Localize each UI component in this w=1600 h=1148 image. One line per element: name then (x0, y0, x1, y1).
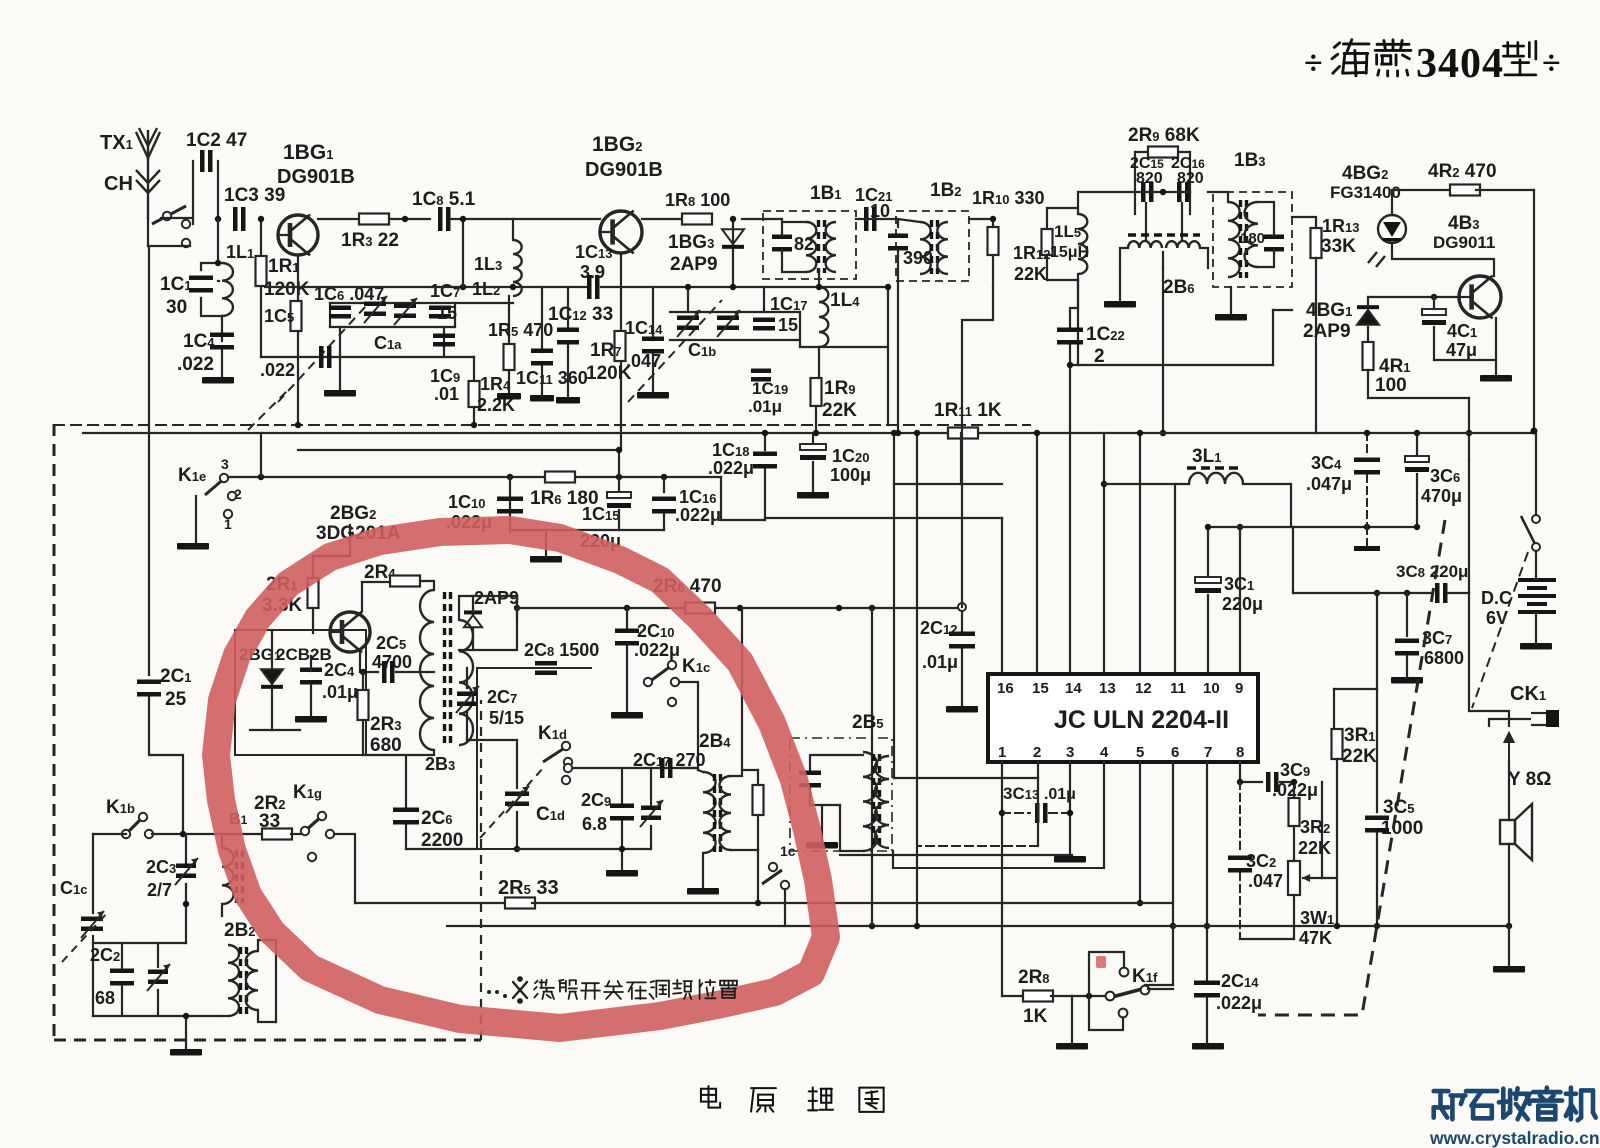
svg-text:2C1: 2C1 (160, 666, 192, 687)
box around C1d (477, 668, 592, 849)
wire (1535, 434, 1537, 515)
wire right rail (1533, 190, 1535, 431)
wire (1448, 592, 1469, 594)
svg-text:220μ: 220μ (1222, 594, 1263, 614)
wire to pin 16 (1001, 518, 1003, 674)
wire (1145, 984, 1173, 986)
capacitor 3C13 .01u (1035, 803, 1048, 823)
svg-text:1C8 5.1: 1C8 5.1 (412, 189, 476, 210)
wire (1292, 217, 1316, 228)
wire (221, 904, 223, 916)
capacitor 1C13 3.9 (587, 275, 600, 299)
wire 1BG2 emitter down (620, 253, 622, 450)
transformer core (715, 774, 721, 852)
resistor 1R4 2.2K (469, 381, 480, 407)
wire (810, 755, 863, 770)
inductor 2B2 secondary (246, 951, 258, 1010)
wire (960, 433, 962, 484)
wire (1336, 759, 1338, 926)
svg-text:K1g: K1g (293, 782, 322, 803)
oscillator box outline (235, 630, 366, 755)
wire (1240, 781, 1262, 783)
wire 3C13 (1002, 812, 1030, 814)
wire 2C6 branch (405, 755, 407, 807)
svg-text:6.8: 6.8 (582, 814, 607, 834)
IC U1 JC ULN 2204-II (988, 674, 1258, 762)
variable capacitor 2C3 2/7 (175, 858, 198, 885)
svg-text:3.9: 3.9 (580, 262, 605, 282)
svg-text:C1d: C1d (536, 804, 565, 825)
wire 2AP9 loop (459, 596, 517, 650)
wire (757, 770, 759, 785)
wire (339, 327, 341, 390)
inductor 1L5 box (1040, 208, 1095, 280)
wire (221, 316, 223, 341)
ground (530, 556, 562, 563)
wire (1333, 689, 1335, 729)
wire (1392, 189, 1454, 191)
wire (1272, 310, 1274, 365)
wire long vertical (871, 608, 873, 926)
svg-text:1C12 33: 1C12 33 (548, 304, 613, 325)
wire (1376, 593, 1378, 689)
wire (1046, 208, 1048, 229)
svg-text:FG31400: FG31400 (1330, 183, 1401, 202)
svg-text:÷: ÷ (1542, 45, 1561, 82)
resistor resistor right of 2B4 (753, 785, 764, 815)
svg-text:.022μ: .022μ (634, 640, 680, 660)
wire (893, 867, 1104, 869)
capacitor 1C20 100u (electrolytic) (800, 444, 826, 460)
svg-text:2200: 2200 (421, 830, 463, 851)
note 波段开关在调频位置 (534, 980, 554, 999)
capacitor 2C1 25 (137, 680, 161, 697)
wire 3C4 branch (1366, 433, 1368, 455)
junction (1466, 430, 1472, 436)
junction (1531, 428, 1538, 435)
svg-text:3R1: 3R1 (1344, 725, 1376, 746)
capacitor 3C4 .047u (1354, 458, 1380, 475)
wire (148, 245, 190, 247)
wire (1293, 895, 1295, 939)
wire (742, 769, 758, 771)
wire (815, 406, 817, 433)
wire (1508, 762, 1510, 808)
svg-text:5: 5 (1136, 744, 1144, 761)
svg-text:6800: 6800 (1424, 648, 1464, 668)
svg-text:4BG1: 4BG1 (1306, 300, 1352, 321)
capacitor 1C4 .022 (210, 333, 234, 350)
wire (1508, 844, 1510, 926)
wire (1077, 192, 1079, 208)
transistor 4BG3 (1459, 276, 1501, 319)
contact (145, 830, 153, 838)
capacitor 1C3 39 (233, 207, 246, 231)
capacitor 1C15 220u (electrolytic) (607, 492, 631, 508)
wire (800, 346, 888, 348)
svg-text:22K: 22K (1298, 838, 1331, 858)
junction (616, 447, 622, 453)
wire (961, 607, 963, 631)
junction (1431, 294, 1437, 300)
inductor 1L4 (819, 287, 828, 347)
svg-text:K1d: K1d (538, 723, 567, 744)
ground under K1f (1056, 1043, 1088, 1050)
caption 电 (701, 1086, 720, 1108)
switch K1a (antenna) (152, 206, 190, 247)
svg-text:7: 7 (1204, 744, 1212, 761)
wire emitter (359, 652, 361, 672)
wire (1243, 483, 1291, 485)
svg-text:1R8 100: 1R8 100 (665, 190, 730, 210)
svg-text:11: 11 (1170, 680, 1186, 697)
svg-text:5/15: 5/15 (489, 708, 524, 728)
svg-text:10: 10 (1203, 680, 1220, 697)
svg-text:1R11 1K: 1R11 1K (934, 400, 1002, 421)
wire wiper to 3R1 column (1322, 877, 1337, 879)
wire (454, 303, 456, 327)
arrow up to jack (1505, 733, 1514, 762)
junction (1034, 430, 1040, 436)
svg-text:4700: 4700 (372, 652, 412, 672)
wire (757, 815, 759, 850)
junction (1414, 524, 1420, 530)
svg-text:1: 1 (998, 744, 1006, 761)
wire (1280, 782, 1294, 796)
wire 1B2 secondary down (897, 281, 899, 433)
wire (161, 217, 193, 219)
inductor 1B2 primary (920, 222, 931, 274)
wire (702, 853, 704, 888)
wire to 1BG2 (513, 218, 600, 220)
wire (893, 433, 895, 778)
wire (217, 219, 219, 263)
junction (460, 284, 466, 290)
wire (856, 218, 896, 220)
wire (363, 750, 434, 755)
svg-text:K1e: K1e (178, 465, 206, 486)
capacitor 1C17 15 (753, 318, 775, 331)
transformer 1B3 (dashed box) (1213, 192, 1292, 287)
transformer core (241, 947, 247, 1015)
wire 1BG2 collector right (642, 218, 685, 220)
wire (687, 287, 689, 312)
svg-text:9: 9 (1235, 680, 1243, 697)
junction (619, 846, 625, 852)
svg-text:DG901B: DG901B (585, 159, 663, 181)
wire (799, 312, 801, 347)
logo 矿石收音机 (1434, 1091, 1466, 1119)
wire bottom rail right (1175, 925, 1509, 927)
wire 1BG1 collector to 1R3 (318, 218, 362, 220)
junction (1067, 810, 1073, 816)
junction (1237, 779, 1243, 785)
wire (362, 720, 364, 755)
svg-text:÷: ÷ (1304, 45, 1323, 82)
transistor 2BG2 oscillator (330, 612, 370, 653)
wire (1047, 274, 1078, 280)
wire (389, 218, 430, 220)
wire 2R5 rail (355, 902, 508, 904)
wire (1077, 280, 1079, 365)
wire (545, 530, 547, 556)
wire (185, 1016, 187, 1040)
wire (1207, 595, 1209, 674)
variable capacitor 2C7 5/15 (456, 686, 479, 713)
svg-text:470μ: 470μ (1421, 486, 1462, 506)
caption 原 (751, 1088, 776, 1111)
wire (840, 854, 1072, 856)
wire (271, 630, 273, 668)
wire 1R1 branch (260, 219, 262, 357)
junction (180, 831, 186, 837)
capacitor 1C10 .022u (497, 497, 523, 514)
capacitor 2C12 .01u (949, 632, 975, 649)
resistor 2R8 1K (1023, 991, 1053, 1002)
wire pin2 down (1037, 762, 1039, 846)
wire (148, 433, 150, 675)
wire (201, 298, 222, 316)
wire rail to 1BG1 base (218, 280, 219, 282)
svg-text:1R1: 1R1 (268, 256, 300, 277)
junction (360, 669, 366, 675)
junction (471, 422, 477, 428)
inductor 2B2 primary (228, 945, 239, 1016)
wire (512, 219, 514, 240)
wire (764, 469, 766, 520)
diode 2AP9 varicap (464, 610, 482, 627)
resistor 2R4 (390, 576, 420, 587)
wire (222, 1015, 228, 1017)
svg-text:2B4: 2B4 (699, 731, 731, 752)
wire (1120, 248, 1128, 268)
variable capacitor C1d (505, 786, 529, 813)
wire (1162, 268, 1164, 433)
svg-text:2R3: 2R3 (370, 714, 402, 735)
wire (121, 986, 123, 1016)
wire C1b tank bottom (670, 339, 800, 341)
wire down to CK1 (1468, 398, 1470, 460)
wire (1495, 360, 1497, 375)
wire to pin 14 (1069, 365, 1071, 674)
junction (1364, 430, 1370, 436)
ground under 1C12 (556, 397, 580, 404)
junction (885, 284, 891, 290)
svg-text:Y 8Ω: Y 8Ω (1508, 769, 1551, 790)
wire (1069, 345, 1071, 365)
resistor 2R2 33 (262, 829, 292, 840)
resistor 1R1 120K (256, 256, 267, 286)
svg-text:6: 6 (1171, 744, 1179, 761)
variable capacitor C1c (81, 911, 104, 938)
LED 4BG2 (1368, 215, 1406, 267)
junction (1334, 923, 1340, 929)
junction (1086, 993, 1092, 999)
junction (1170, 923, 1176, 929)
svg-text:2R9 68K: 2R9 68K (1128, 125, 1200, 146)
wire (782, 250, 806, 272)
junction (258, 216, 264, 222)
ground under 1B3 (1215, 314, 1247, 321)
wire (1078, 191, 1135, 193)
wire main rail 1R11 (83, 432, 1534, 434)
wire (812, 433, 814, 444)
junction (1237, 524, 1243, 530)
contact (326, 830, 334, 838)
ground under 2C9 (606, 870, 638, 877)
svg-text:13: 13 (1099, 680, 1116, 697)
wire (1258, 250, 1274, 267)
wire (310, 685, 312, 716)
junction (730, 284, 736, 290)
wire (1376, 689, 1378, 812)
wire (451, 218, 513, 220)
capacitor 2C15 820 (1141, 182, 1154, 202)
junction (685, 284, 691, 290)
wire (571, 767, 696, 769)
capacitor 2C16 820 (1177, 182, 1190, 202)
switch K1c' (762, 863, 789, 889)
wire (466, 668, 468, 688)
wire (185, 1040, 187, 1049)
capacitor 3C7 6800 (1395, 639, 1419, 656)
svg-text:2B6: 2B6 (1163, 277, 1195, 298)
junction (661, 474, 667, 480)
contact (564, 764, 572, 772)
variable capacitor C1a' (394, 298, 417, 325)
junction (999, 810, 1005, 816)
wire (1189, 152, 1191, 192)
wire (917, 845, 1038, 847)
resistor 1R5 470 (504, 344, 515, 370)
transformer core (819, 220, 825, 273)
capacitor 1C8 5.1 (438, 207, 451, 231)
svg-text:2AP9: 2AP9 (474, 588, 519, 608)
svg-text:1C11 360: 1C11 360 (516, 368, 588, 388)
wire (679, 682, 698, 770)
transistor 1BG1 DG901B (278, 215, 318, 256)
wire (1070, 364, 1273, 366)
junction (1404, 590, 1410, 596)
inductor 1B1 primary (806, 222, 816, 272)
svg-text:1R5 470: 1R5 470 (488, 320, 553, 340)
wire (1468, 460, 1470, 593)
red speck (1096, 956, 1106, 968)
svg-text:www.crystalradio.cn: www.crystalradio.cn (1429, 1128, 1600, 1148)
wire (258, 940, 276, 951)
wire to pin 10 (1207, 527, 1209, 575)
capacitor 1C7 15 (429, 306, 451, 319)
transformer 1B2 (dashed box) (896, 211, 969, 281)
wire (201, 263, 222, 270)
wire (1162, 252, 1164, 268)
resistor 2R6 470 (685, 603, 715, 614)
wire (1535, 551, 1537, 578)
svg-text:2: 2 (1033, 744, 1041, 761)
wire (275, 940, 277, 1022)
note X mark (513, 977, 527, 1002)
junction (1101, 481, 1107, 487)
wire (1172, 926, 1174, 985)
resistor 2R9 68K (1148, 147, 1178, 158)
svg-text:DG9011: DG9011 (1433, 233, 1495, 252)
svg-text:1B3: 1B3 (1234, 150, 1266, 171)
capacitor 1C18 .022u (753, 452, 777, 469)
caption 图 (859, 1088, 883, 1112)
junction (1364, 524, 1370, 530)
wire (1135, 151, 1190, 153)
inductor 2B5 primary (863, 752, 877, 851)
wire wiper (1321, 782, 1323, 878)
capacitor 3C1 220u (electrolytic) (1195, 577, 1221, 593)
capacitor capacitor 82 (772, 235, 792, 252)
wire (157, 943, 159, 967)
wire (1406, 593, 1408, 636)
wire (1535, 614, 1537, 643)
wire (1230, 287, 1232, 314)
wire 1BG3 branch (732, 219, 734, 287)
ground under 1C20 (797, 492, 829, 499)
wire 1C9 branch (443, 327, 445, 357)
wire (784, 889, 786, 926)
switch K1g (301, 812, 326, 835)
junction (1291, 779, 1297, 785)
switch on battery line (1521, 515, 1540, 551)
wire (1051, 995, 1105, 997)
wire (731, 849, 758, 851)
wire (898, 219, 920, 227)
ground in 2B5 (806, 842, 838, 849)
svg-text:47K: 47K (1299, 928, 1332, 948)
wire pin5 down (1139, 762, 1141, 903)
transformer core (1241, 200, 1247, 278)
wire (626, 608, 628, 628)
wire (766, 219, 782, 236)
transformer core (1128, 233, 1200, 236)
resistor 2R3 680 (358, 690, 369, 720)
wire (1239, 873, 1241, 939)
wire (92, 936, 94, 1016)
wire (650, 826, 652, 849)
svg-text:4BG2: 4BG2 (1342, 163, 1388, 184)
resistor 3R1 22K (1332, 729, 1343, 759)
wire 1R5 branch (508, 296, 510, 343)
junction (510, 284, 516, 290)
svg-text:3: 3 (1066, 744, 1074, 761)
wire 1BG1 emitter down (297, 255, 299, 425)
wire (1434, 359, 1496, 361)
wire pin3 down (1069, 762, 1071, 856)
wire (621, 821, 623, 849)
wire rail 477 right (510, 476, 721, 478)
resistor 1R8 100 (682, 214, 712, 225)
capacitor 1C22 2 (1057, 328, 1083, 345)
svg-text:1L4: 1L4 (830, 290, 860, 311)
resistor 3R2 22K (1289, 798, 1300, 826)
svg-text:100: 100 (1375, 375, 1407, 396)
wire (93, 1015, 222, 1017)
svg-text:.022: .022 (260, 360, 295, 380)
junction (460, 216, 466, 222)
potentiometer 3W1 47K (1288, 861, 1322, 895)
svg-text:15: 15 (778, 315, 798, 335)
svg-text:180: 180 (1240, 230, 1265, 247)
svg-text:30: 30 (166, 297, 187, 318)
svg-text:2R8: 2R8 (1018, 967, 1050, 988)
capacitor 2C2 68 (110, 969, 134, 986)
wire (650, 768, 652, 805)
wire (258, 1010, 276, 1022)
